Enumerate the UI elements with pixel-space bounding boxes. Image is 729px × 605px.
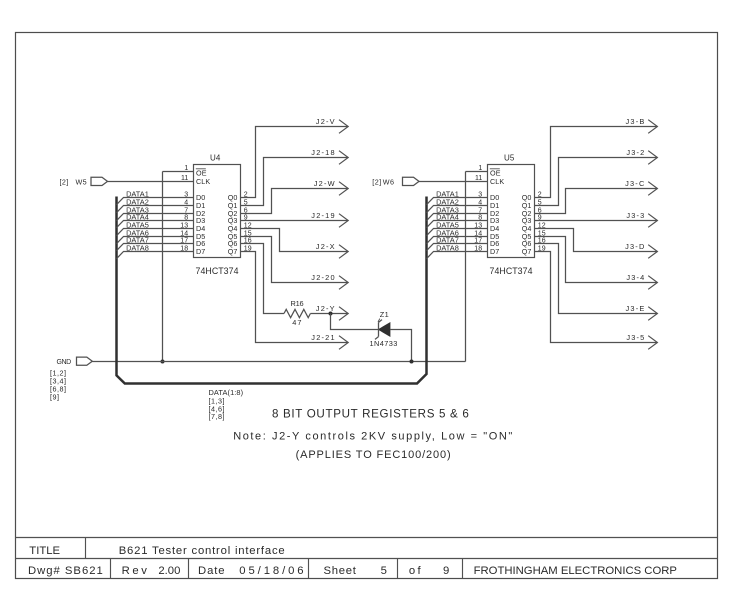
node W5 (off-page connector from sheet 2) (60, 177, 108, 186)
IC U5 (74HCT374 octal register) (474, 154, 546, 276)
wire Q0 to J2-V (241, 127, 348, 198)
zener diode Z1 1N4733 (370, 310, 398, 348)
svg-text:W5: W5 (76, 177, 88, 186)
node J2-V (off-page arrow) (316, 117, 348, 133)
wire DATA3 bus entry to U5 pin D2 (427, 214, 488, 221)
wire DATA2 bus entry to U5 pin D1 (427, 206, 488, 213)
ground connector GND (56, 357, 92, 366)
wire Q7 to J3-5 (535, 252, 657, 343)
svg-text:8 BIT OUTPUT REGISTERS 5 & 6: 8 BIT OUTPUT REGISTERS 5 & 6 (272, 408, 469, 421)
node J2-19 (off-page arrow) (311, 211, 348, 227)
svg-text:Sheet: Sheet (324, 565, 357, 577)
wire U5 OE pin 1 to ground net (466, 171, 488, 173)
svg-text:74HCT374: 74HCT374 (196, 266, 239, 276)
svg-text:DATA8: DATA8 (126, 243, 149, 252)
junction Z1 / GND (410, 360, 414, 364)
wire R16 to J2-Y (310, 313, 347, 315)
svg-text:R16: R16 (291, 299, 304, 308)
node J2-21 (off-page arrow) (311, 333, 348, 349)
svg-text:[9]: [9] (50, 392, 60, 401)
svg-text:J2-21: J2-21 (311, 333, 336, 342)
svg-text:Q7: Q7 (228, 247, 238, 256)
IC U4 (74HCT374 octal register) (180, 154, 252, 276)
node J2-20 (off-page arrow) (311, 273, 348, 289)
wire Q0 to J3-B (535, 127, 657, 198)
sheet references for GND net (50, 368, 67, 401)
wire Q5 to J2-20 (241, 237, 348, 283)
svg-text:J2-18: J2-18 (311, 148, 336, 157)
svg-text:Rev: Rev (122, 565, 150, 577)
svg-text:05/18/06: 05/18/06 (239, 565, 306, 577)
svg-text:CLK: CLK (196, 177, 210, 186)
svg-text:74HCT374: 74HCT374 (490, 266, 533, 276)
node J3-5 (off-page arrow) (626, 333, 657, 349)
node J3-2 (off-page arrow) (626, 148, 657, 164)
svg-text:(APPLIES TO FEC100/200): (APPLIES TO FEC100/200) (296, 449, 452, 461)
resistor R16 (284, 299, 310, 327)
wire DATA1 bus entry to U5 pin D0 (427, 198, 488, 205)
svg-text:1N4733: 1N4733 (370, 339, 398, 348)
svg-text:J3-5: J3-5 (626, 333, 645, 342)
svg-text:1: 1 (184, 165, 188, 172)
svg-text:U4: U4 (210, 154, 221, 163)
svg-text:J3-B: J3-B (626, 117, 646, 126)
svg-text:J2-20: J2-20 (311, 273, 336, 282)
wire Q5 to J3-4 (535, 237, 657, 283)
node J2-Y (off-page arrow) (316, 304, 348, 320)
wire DATA1 bus entry to U4 pin D0 (117, 198, 194, 205)
svg-text:of: of (409, 565, 423, 577)
wire DATA5 bus entry to U5 pin D4 (427, 229, 488, 236)
svg-text:J3-D: J3-D (625, 242, 645, 251)
wire DATA3 bus entry to U4 pin D2 (117, 214, 194, 221)
svg-text:J2-V: J2-V (316, 117, 336, 126)
svg-text:D7: D7 (196, 247, 205, 256)
svg-text:J3-4: J3-4 (626, 273, 645, 282)
wire Q3 to J3-3 (535, 220, 657, 222)
bus DATA(1:8) (117, 197, 427, 384)
svg-text:2.00: 2.00 (158, 565, 180, 577)
svg-text:J2-W: J2-W (314, 179, 336, 188)
svg-text:GND: GND (56, 359, 71, 366)
wire Q7 to J2-21 (241, 252, 348, 343)
svg-text:Dwg# SB621: Dwg# SB621 (28, 565, 104, 577)
svg-text:J2-X: J2-X (316, 242, 336, 251)
svg-text:W6: W6 (383, 177, 395, 186)
wire DATA7 bus entry to U4 pin D6 (117, 244, 194, 251)
wire DATA6 bus entry to U5 pin D5 (427, 237, 488, 244)
wire DATA5 bus entry to U4 pin D4 (117, 229, 194, 236)
wire DATA4 bus entry to U5 pin D3 (427, 221, 488, 228)
svg-text:CLK: CLK (490, 177, 504, 186)
svg-text:U5: U5 (504, 154, 515, 163)
wire W6 to U5 CLK pin 11 (419, 181, 488, 183)
svg-text:11: 11 (475, 175, 482, 182)
wire DATA8 bus entry to U5 pin D7 (427, 252, 488, 259)
junction J2-Y / zener branch (329, 312, 333, 316)
wire DATA2 bus entry to U4 pin D1 (117, 206, 194, 213)
svg-text:DATA8: DATA8 (436, 243, 459, 252)
svg-text:Date: Date (198, 565, 226, 577)
bus label DATA(1:8) with sheet refs (209, 388, 244, 421)
node J3-D (off-page arrow) (625, 242, 657, 258)
wire Q1 to J2-18 (241, 158, 348, 206)
wire DATA8 bus entry to U4 pin D7 (117, 252, 194, 259)
svg-text:[2]: [2] (60, 177, 69, 186)
svg-text:D7: D7 (490, 247, 499, 256)
svg-text:J2-Y: J2-Y (316, 304, 336, 313)
node J3-C (off-page arrow) (625, 179, 657, 195)
wire DATA7 bus entry to U5 pin D6 (427, 244, 488, 251)
junction U4-OE / GND (161, 360, 165, 364)
wire ground net (92, 361, 465, 363)
svg-text:Z1: Z1 (380, 310, 389, 319)
svg-text:Q7: Q7 (522, 247, 532, 256)
node J2-X (off-page arrow) (316, 242, 348, 258)
wire Z1 cathode to ground net (390, 330, 412, 362)
title block (16, 538, 718, 579)
svg-text:Note: J2-Y controls 2KV supply: Note: J2-Y controls 2KV supply, Low = "O… (233, 431, 514, 443)
svg-text:1: 1 (478, 165, 482, 172)
node W6 (off-page connector from sheet 2) (372, 177, 419, 186)
svg-text:J3-3: J3-3 (626, 211, 645, 220)
wire Q4 to J3-D (535, 229, 657, 252)
wire DATA6 bus entry to U4 pin D5 (117, 237, 194, 244)
node J3-4 (off-page arrow) (626, 273, 657, 289)
svg-text:B621 Tester control interface: B621 Tester control interface (119, 545, 286, 557)
wire U4 OE pin 1 to ground net (163, 171, 194, 173)
wire W5 to U4 CLK pin 11 (108, 181, 194, 183)
svg-text:J3-C: J3-C (625, 179, 645, 188)
svg-text:9: 9 (443, 565, 449, 577)
wire Q6 to J3-E (535, 244, 657, 314)
svg-text:[2]: [2] (372, 177, 381, 186)
node J2-18 (off-page arrow) (311, 148, 348, 164)
svg-text:[7,8]: [7,8] (209, 412, 226, 421)
svg-text:5: 5 (381, 565, 387, 577)
wire DATA4 bus entry to U4 pin D3 (117, 221, 194, 228)
wire Q3 to J2-19 (241, 220, 348, 222)
svg-text:FROTHINGHAM ELECTRONICS CORP: FROTHINGHAM ELECTRONICS CORP (474, 565, 677, 577)
wire Q1 to J3-2 (535, 158, 657, 206)
node J3-3 (off-page arrow) (626, 211, 657, 227)
svg-text:J3-E: J3-E (626, 304, 646, 313)
wire Q2 to J2-W (241, 189, 348, 214)
wire Q2 to J3-C (535, 189, 657, 214)
node J2-W (off-page arrow) (314, 179, 348, 195)
svg-text:47: 47 (292, 318, 302, 327)
wire Q4 to J2-X (241, 229, 348, 252)
svg-text:J2-19: J2-19 (311, 211, 336, 220)
svg-text:TITLE: TITLE (29, 545, 60, 557)
wire U4 Q6 pin 16 to resistor R16 (241, 244, 285, 314)
node J3-E (off-page arrow) (626, 304, 658, 320)
svg-text:J3-2: J3-2 (626, 148, 645, 157)
wire J2-Y junction to zener Z1 anode (331, 314, 379, 330)
svg-text:11: 11 (181, 175, 188, 182)
node J3-B (off-page arrow) (626, 117, 658, 133)
